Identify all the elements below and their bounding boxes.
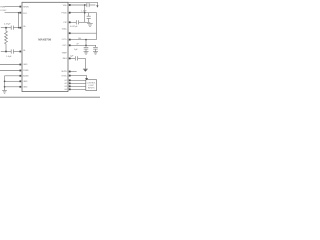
svg-text:VDA+: VDA+ bbox=[62, 27, 68, 30]
svg-text:1.0µF: 1.0µF bbox=[81, 10, 87, 12]
svg-text:AGND: AGND bbox=[23, 75, 29, 78]
capacitor C1 0.47uF plates bbox=[10, 26, 12, 30]
pin bbox=[19, 51, 21, 53]
wire L1 PWM input bbox=[5, 6, 20, 8]
pin labels inside chip bbox=[23, 5, 67, 91]
wire R8 short stub bbox=[70, 71, 77, 73]
node C bbox=[18, 12, 19, 13]
svg-text:LOGIC: LOGIC bbox=[0, 10, 7, 12]
svg-text:OUT+: OUT+ bbox=[62, 39, 68, 41]
svg-text:SYNC: SYNC bbox=[62, 75, 68, 77]
wire R5 OUT+ bbox=[70, 39, 97, 41]
svg-text:GND: GND bbox=[23, 81, 28, 83]
svg-text:IN-: IN- bbox=[23, 50, 26, 52]
svg-text:PWM: PWM bbox=[0, 6, 5, 8]
pin bbox=[69, 32, 71, 34]
svg-text:SHDN: SHDN bbox=[23, 6, 29, 8]
svg-text:OUT-: OUT- bbox=[62, 45, 67, 47]
capacitor C4 shunt bbox=[88, 13, 90, 16]
control logic box bbox=[86, 80, 97, 91]
svg-text:MAX9709: MAX9709 bbox=[38, 37, 51, 41]
pin bbox=[69, 75, 71, 77]
ground GND1 bbox=[2, 90, 7, 92]
pin bbox=[19, 75, 21, 77]
wire L7 bbox=[5, 76, 20, 91]
pin bbox=[69, 39, 71, 41]
svg-text:GND: GND bbox=[23, 87, 28, 89]
wire L5 bbox=[0, 64, 19, 66]
pin bbox=[69, 79, 71, 81]
node E bbox=[4, 80, 6, 82]
wire R11 bbox=[70, 82, 86, 84]
node A bbox=[5, 27, 7, 29]
wire R3 bbox=[70, 21, 76, 23]
wire R7 bbox=[70, 57, 75, 59]
arrow supply rail down bbox=[96, 5, 98, 8]
capacitor C8 plates bbox=[74, 56, 76, 60]
svg-text:VDD: VDD bbox=[63, 5, 68, 7]
pin bbox=[19, 70, 21, 72]
wire top supply rail bbox=[68, 2, 97, 5]
pin bbox=[69, 4, 71, 6]
ground GND6 triangle bbox=[83, 69, 87, 71]
ground GND5 bbox=[93, 51, 98, 53]
capacitor C7 shunt bbox=[95, 45, 97, 47]
pin bbox=[69, 85, 71, 87]
wire R1 VDD bbox=[70, 4, 87, 6]
capacitor C2 1.0uF plates bbox=[10, 49, 12, 53]
wire into IN- bbox=[1, 51, 11, 53]
node H bbox=[84, 12, 86, 14]
svg-text:G2: G2 bbox=[64, 83, 67, 85]
wire R6 OUT- bbox=[70, 44, 96, 46]
wire L2 LOGIC input bbox=[5, 12, 20, 14]
wire vertical R5-R6 bbox=[85, 40, 87, 46]
wire R13 bbox=[70, 88, 86, 90]
wire R2 PVDD bbox=[70, 13, 97, 40]
svg-text:G1: G1 bbox=[64, 80, 67, 82]
pin bbox=[19, 80, 21, 82]
pin bbox=[69, 71, 71, 73]
wire bbox=[89, 4, 95, 6]
svg-text:FS1: FS1 bbox=[23, 13, 26, 15]
wire branch vertical bbox=[18, 13, 20, 28]
wire L9 bbox=[5, 86, 20, 88]
wire bbox=[14, 51, 20, 53]
svg-text:GND: GND bbox=[23, 64, 28, 66]
pin bbox=[19, 86, 21, 88]
svg-text:0.47µF: 0.47µF bbox=[4, 24, 11, 26]
pin bbox=[19, 64, 21, 66]
svg-text:PGND: PGND bbox=[23, 70, 29, 72]
capacitor C3 plates bbox=[86, 3, 88, 7]
op-amp U1 chip body MAX9709 bbox=[22, 2, 68, 91]
text labels bbox=[0, 6, 95, 89]
pin bbox=[69, 88, 71, 90]
wire bottom rail bbox=[0, 96, 100, 98]
pin bbox=[69, 58, 71, 60]
svg-text:INPUTS: INPUTS bbox=[88, 87, 95, 89]
svg-text:10k: 10k bbox=[78, 38, 81, 40]
wire R9 into control box bbox=[70, 76, 87, 79]
pin bbox=[69, 21, 71, 23]
wire bbox=[78, 58, 86, 68]
svg-text:VREF: VREF bbox=[62, 53, 68, 55]
node F bbox=[4, 86, 6, 88]
wire L6 bbox=[0, 70, 19, 72]
node B bbox=[5, 51, 7, 53]
node I bbox=[85, 39, 87, 41]
wire into IN+ bbox=[1, 27, 11, 29]
wire R12 bbox=[70, 85, 86, 87]
capacitor C5 plates bbox=[75, 20, 77, 24]
wire R10 bbox=[70, 79, 86, 81]
svg-text:MUTE: MUTE bbox=[61, 71, 67, 73]
pin bbox=[69, 82, 71, 84]
ground GND2 bbox=[87, 23, 93, 25]
pin bbox=[69, 12, 71, 14]
svg-text:REG: REG bbox=[63, 58, 68, 60]
resistor R1 vertical bbox=[5, 28, 8, 52]
node J bbox=[85, 44, 87, 46]
svg-text:G4: G4 bbox=[64, 89, 67, 91]
node junction dots and arrows bbox=[4, 4, 99, 88]
wire vertical junction R1-R2-R3 bbox=[84, 5, 86, 22]
svg-text:G3: G3 bbox=[64, 86, 67, 88]
wire R4 bbox=[70, 32, 97, 34]
pin bbox=[19, 27, 21, 29]
capacitor C6 shunt bbox=[85, 45, 87, 47]
svg-text:PVDD: PVDD bbox=[62, 13, 68, 15]
pin bbox=[19, 6, 21, 8]
pin bbox=[19, 12, 21, 14]
background bbox=[0, 0, 100, 100]
pin bbox=[69, 44, 71, 46]
node G bbox=[84, 4, 86, 6]
wire bbox=[79, 21, 91, 23]
ground GND6 bbox=[83, 68, 88, 70]
arrow into control box bbox=[85, 78, 88, 80]
wire L8 bbox=[5, 80, 20, 82]
wire bbox=[14, 27, 20, 29]
pin squares left bbox=[19, 4, 70, 90]
svg-text:1.0µF: 1.0µF bbox=[6, 56, 12, 58]
svg-text:0.047µF: 0.047µF bbox=[70, 26, 78, 28]
ground GND4 bbox=[84, 51, 89, 53]
node D bbox=[18, 27, 19, 28]
